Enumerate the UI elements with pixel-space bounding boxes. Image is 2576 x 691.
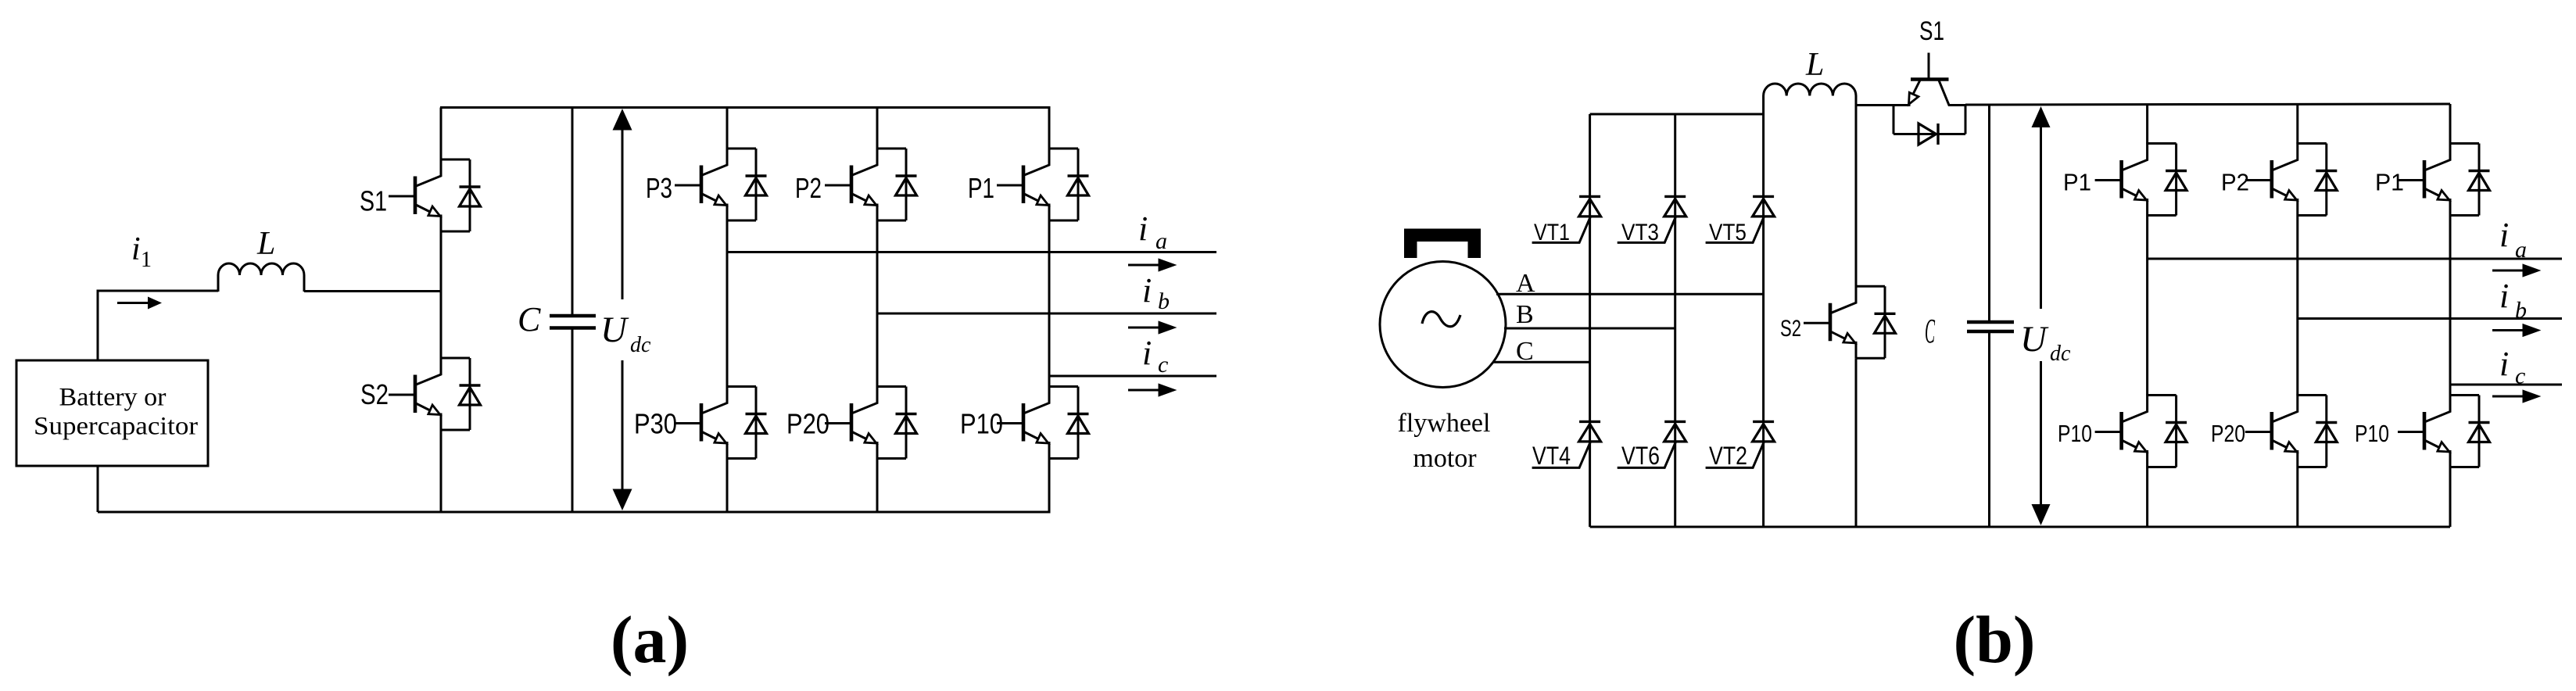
inductor L1 [218, 263, 304, 292]
wire inverter leg2 top (fig b) [2296, 105, 2298, 144]
svg-text:S2: S2 [360, 378, 389, 410]
svg-text:L: L [1805, 47, 1824, 83]
wire battery top to inductor [98, 291, 218, 360]
svg-text:S1: S1 [1919, 16, 1944, 46]
IGBT P30 [675, 386, 767, 459]
svg-text:i: i [1142, 334, 1152, 372]
wire inverter leg3 middle (fig b) [2449, 216, 2452, 396]
wire inverter leg1 top (fig a) [726, 108, 729, 149]
svg-text:B: B [1516, 300, 1534, 329]
svg-text:VT4: VT4 [1532, 442, 1571, 470]
phase line A [1496, 293, 1764, 295]
wire inverter leg1 middle (fig a) [726, 220, 729, 387]
svg-text:P20: P20 [786, 408, 829, 440]
flywheel motor circle [1380, 262, 1506, 388]
thyristor VT1 [1532, 196, 1601, 242]
capacitor C (fig a) [571, 108, 574, 317]
svg-text:VT6: VT6 [1621, 442, 1660, 470]
svg-text:P3: P3 [646, 172, 672, 204]
IGBT S1 [389, 159, 481, 231]
svg-text:i: i [2499, 216, 2509, 254]
wire inverter leg1 bottom (fig b) [2146, 467, 2148, 528]
IGBT P1 (fig b leg3 top) [2398, 143, 2490, 216]
svg-text:P1: P1 [2375, 169, 2404, 196]
capacitor C (fig b) [1988, 105, 1990, 323]
svg-text:b: b [2515, 298, 2527, 324]
wire inverter leg3 middle (fig a) [1048, 220, 1051, 387]
svg-text:P30: P30 [634, 408, 677, 440]
phase line C [1492, 361, 1590, 363]
svg-text:P1: P1 [2063, 169, 2091, 196]
phase line i_c (fig b) [2450, 384, 2562, 386]
wire inverter leg1 middle (fig b) [2146, 216, 2148, 396]
svg-text:1: 1 [141, 248, 152, 272]
svg-text:S2: S2 [1780, 316, 1801, 342]
bottom DC bus (fig a) [98, 511, 1051, 514]
IGBT P20 (fig b leg2 bottom) [2245, 395, 2338, 467]
svg-text:VT1: VT1 [1534, 220, 1570, 245]
wire inverter leg1 top (fig b) [2146, 105, 2148, 144]
wire S2-leg lower (fig b) [1855, 358, 1858, 527]
battery box [16, 360, 208, 466]
svg-text:P10: P10 [960, 408, 1003, 440]
svg-text:VT2: VT2 [1709, 442, 1747, 470]
IGBT P10 (fig b leg3 bottom) [2398, 395, 2490, 467]
IGBT P20 [825, 386, 917, 459]
svg-text:i: i [1138, 209, 1148, 248]
rectifier top bus [1590, 113, 1764, 116]
IGBT S1 (fig b, horizontal) [1893, 53, 1966, 145]
svg-text:VT3: VT3 [1621, 220, 1659, 245]
rectifier leg2 wire [1674, 114, 1676, 527]
svg-text:P1: P1 [968, 172, 994, 204]
svg-text:i: i [1142, 271, 1152, 310]
IGBT S2 (fig b) [1804, 285, 1896, 358]
flywheel bracket [1404, 229, 1481, 259]
wire inverter leg2 middle (fig b) [2296, 216, 2298, 396]
wire inverter leg3 bottom (fig a) [1048, 459, 1051, 513]
thyristor VT5 [1706, 196, 1775, 242]
wire inverter leg2 top (fig a) [876, 108, 879, 149]
IGBT P2 (fig b leg2 top) [2245, 143, 2338, 216]
wire battery bottom to bus [97, 466, 99, 512]
IGBT P3 [675, 148, 767, 220]
svg-text:P10: P10 [2355, 420, 2389, 447]
voltage arrow U_dc (fig a) [622, 129, 624, 299]
svg-text:i: i [2499, 345, 2509, 383]
wire inverter leg2 bottom (fig b) [2296, 467, 2298, 528]
svg-text:a: a [2515, 237, 2527, 263]
svg-text:flywheel: flywheel [1398, 409, 1491, 438]
svg-text:A: A [1516, 269, 1535, 298]
svg-text:VT5: VT5 [1709, 220, 1747, 245]
svg-text:(a): (a) [611, 602, 689, 677]
svg-text:P10: P10 [2058, 420, 2092, 447]
rectifier/inverter bottom bus (fig b) [1590, 526, 2450, 528]
svg-text:Battery or: Battery or [59, 384, 167, 412]
inductor L (fig b) [1764, 84, 1856, 106]
top DC bus (fig a) [440, 106, 1051, 109]
arrow i_b (fig b) [2492, 325, 2538, 335]
svg-text:U: U [600, 310, 629, 350]
svg-text:P20: P20 [2211, 420, 2245, 447]
svg-text:U: U [2020, 319, 2049, 360]
svg-text:i: i [2499, 277, 2509, 315]
IGBT P2 [825, 148, 917, 220]
svg-text:L: L [256, 226, 275, 262]
wire inductor to S-leg node [304, 290, 441, 292]
svg-text:C: C [518, 300, 541, 338]
wire inverter leg3 top (fig a) [1048, 108, 1051, 149]
svg-text:i: i [131, 231, 141, 267]
IGBT P10 (fig b leg1 bottom) [2095, 395, 2187, 467]
phase line i_b (fig b) [2298, 317, 2562, 320]
svg-text:dc: dc [630, 333, 651, 357]
wire coil to S1 [1856, 104, 1894, 106]
phase line i_c (fig a) [1049, 375, 1216, 378]
svg-text:P2: P2 [2221, 169, 2249, 196]
svg-text:P2: P2 [795, 172, 822, 204]
IGBT P1 (fig b leg1 top) [2095, 143, 2187, 216]
wire inverter leg3 bottom (fig b) [2449, 467, 2452, 528]
svg-text:C: C [1516, 337, 1534, 366]
top DC bus (fig b) [1965, 104, 2450, 105]
wire inverter leg2 bottom (fig a) [876, 459, 879, 513]
phase line i_b (fig a) [877, 313, 1216, 315]
svg-text:Supercapacitor: Supercapacitor [34, 413, 198, 441]
svg-text:a: a [1155, 228, 1167, 254]
thyristor VT3 [1618, 196, 1686, 242]
svg-text:b: b [1158, 288, 1170, 314]
wire S2-leg upper (fig b) [1855, 106, 1858, 287]
IGBT S2 [389, 357, 481, 430]
rectifier leg1 wire [1589, 114, 1591, 527]
svg-text:dc: dc [2050, 342, 2071, 366]
wire inverter leg2 middle (fig a) [876, 220, 879, 387]
phase line i_a (fig b) [2148, 258, 2562, 260]
arrow i_c (fig b) [2492, 392, 2538, 402]
rectifier leg3 wire [1762, 96, 1765, 528]
wire S-leg top [440, 108, 442, 160]
IGBT P10 [997, 386, 1089, 459]
thyristor VT6 [1618, 421, 1686, 467]
voltage arrow U_dc (fig b) [2040, 127, 2042, 309]
svg-text:motor: motor [1413, 444, 1477, 473]
wire inverter leg3 top (fig b) [2449, 104, 2452, 144]
arrow i_b (fig a) [1128, 323, 1173, 333]
phase line i_a (fig a) [727, 251, 1216, 253]
arrow i_c (fig a) [1128, 385, 1173, 396]
wire S-leg middle [440, 231, 442, 358]
svg-text:c: c [1158, 352, 1168, 378]
svg-text:(b): (b) [1953, 602, 2035, 677]
wire inverter leg1 bottom (fig a) [726, 459, 729, 513]
IGBT P1 [997, 148, 1089, 220]
phase line B [1504, 328, 1675, 330]
current arrow i1 [117, 302, 149, 304]
arrow i_a (fig a) [1128, 260, 1173, 270]
thyristor VT2 [1706, 421, 1775, 467]
thyristor VT4 [1532, 421, 1601, 467]
svg-text:c: c [2515, 363, 2525, 389]
svg-text:S1: S1 [360, 185, 387, 217]
arrow i_a (fig b) [2492, 266, 2538, 276]
wire S-leg bottom [440, 430, 442, 512]
sine symbol inside motor [1422, 312, 1460, 327]
svg-text:C: C [1925, 312, 1935, 350]
